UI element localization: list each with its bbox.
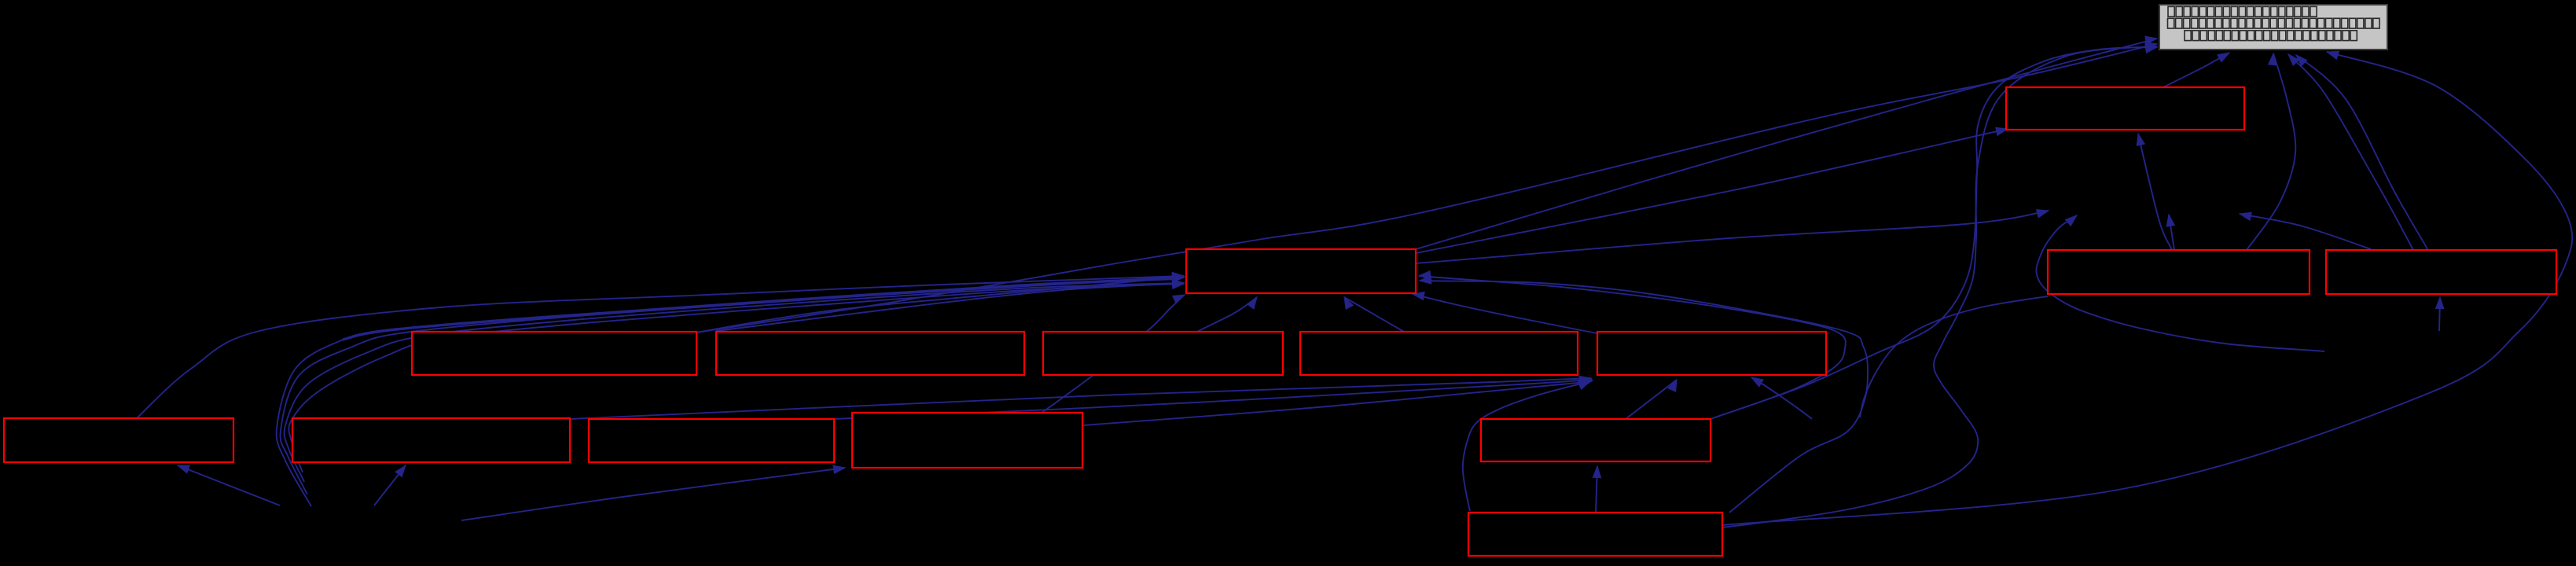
edge R->D (vertical) bbox=[2436, 297, 2444, 331]
node F (red box) bbox=[716, 332, 1024, 375]
edge D->T 2 bbox=[2296, 55, 2427, 249]
edge O->N bbox=[1593, 466, 1600, 513]
trunk IN1->B (overlapped edges) bbox=[343, 278, 1178, 340]
edge E->B bbox=[696, 274, 1184, 333]
node T (current file, gray) bbox=[2159, 5, 2387, 50]
node M (red box) bbox=[852, 413, 1082, 468]
edge C->S bbox=[1860, 296, 2048, 417]
edge M->B bbox=[1042, 295, 1185, 413]
edge N->B (wrap I) bbox=[1419, 271, 1846, 419]
edge O->I (hook) bbox=[1463, 381, 1590, 511]
edge B->T bbox=[1416, 36, 2157, 249]
node C (red box) bbox=[2048, 250, 2310, 294]
edge IN1->B 1 bbox=[277, 274, 1184, 506]
edge B->A bbox=[1416, 127, 2008, 253]
edge I->B (corner) bbox=[1413, 292, 1597, 333]
edge O->T (around right) bbox=[1722, 51, 2572, 525]
edge A->T bbox=[2163, 53, 2229, 87]
node N (red box) bbox=[1481, 419, 1711, 461]
node B (red box) bbox=[1186, 249, 1416, 293]
edge C->A bbox=[2137, 134, 2172, 250]
edge IN1->B 3 bbox=[285, 280, 1184, 482]
edge C->Q bbox=[2166, 215, 2174, 250]
edge F->B bbox=[716, 280, 1184, 331]
edge IN1->B 4 bbox=[288, 281, 1184, 472]
edge O->T (S-bulge vertical) bbox=[1722, 44, 2157, 527]
edge N->I bbox=[1626, 380, 1677, 419]
edge D->Q bbox=[2240, 212, 2371, 249]
node O (red box) bbox=[1468, 513, 1722, 556]
edge IN1->B 2 bbox=[281, 274, 1184, 494]
edge IN1->K bbox=[374, 465, 406, 505]
node I (red box) bbox=[1597, 332, 1826, 375]
node D (red box) bbox=[2326, 250, 2556, 294]
node G (red box) bbox=[1043, 332, 1283, 375]
edge M->I bbox=[1083, 380, 1593, 426]
edge R->P (hook) bbox=[2036, 215, 2324, 351]
edge K->I bbox=[570, 376, 1591, 419]
edge IN1->J bbox=[178, 465, 280, 505]
edge H->B bbox=[1344, 297, 1404, 332]
node L (red box) bbox=[589, 419, 834, 462]
edge E->T bbox=[696, 42, 2157, 333]
edge D->T 1 bbox=[2288, 54, 2413, 250]
edge IN1->M bbox=[461, 465, 845, 520]
edge L->I bbox=[834, 377, 1592, 419]
node J (red box) bbox=[4, 418, 233, 462]
node K (red box) bbox=[292, 418, 570, 462]
edge G->B bbox=[1197, 297, 1257, 332]
node H (red box) bbox=[1300, 332, 1578, 375]
edge N->T (vertical sweep) bbox=[1711, 45, 2157, 419]
node E (red box) bbox=[412, 332, 696, 375]
edge O->B (wrap I) bbox=[1420, 276, 1868, 513]
node A (red box) bbox=[2006, 87, 2244, 130]
edge J->B bbox=[138, 272, 1184, 417]
edge S->I bbox=[1751, 377, 1812, 419]
edge C->T bbox=[2247, 53, 2295, 250]
edge B->P bbox=[1416, 210, 2049, 263]
